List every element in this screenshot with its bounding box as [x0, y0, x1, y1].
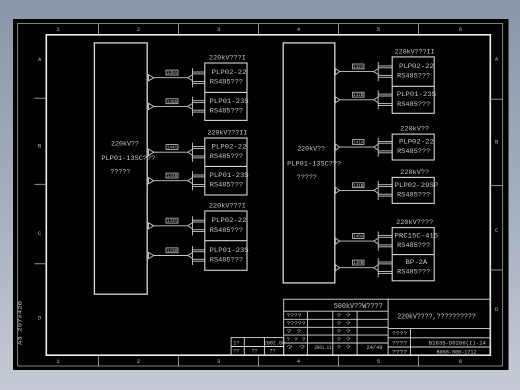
- svg-text:????: ????: [392, 330, 407, 337]
- svg-text:RS485???: RS485???: [210, 227, 243, 234]
- svg-text:220kV??: 220kV??: [400, 126, 429, 133]
- svg-text:220kV??: 220kV??: [297, 146, 325, 154]
- svg-text:5: 5: [377, 27, 380, 33]
- svg-text:PLP01-23S: PLP01-23S: [397, 91, 436, 98]
- svg-text:PLP02-22: PLP02-22: [399, 63, 434, 70]
- svg-text:C: C: [495, 228, 498, 234]
- svg-text:140A: 140A: [353, 235, 363, 240]
- svg-text:6: 6: [459, 27, 462, 33]
- cable W3 (144A): [149, 143, 205, 162]
- zone numbers bottom: [56, 359, 462, 365]
- cable W2 (145B): [149, 97, 205, 116]
- svg-text:????: ????: [392, 339, 407, 346]
- svg-text:? ?: ? ?: [287, 344, 306, 351]
- U1 label text: [101, 140, 155, 176]
- svg-text:?????: ?????: [287, 320, 306, 327]
- svg-text:2002.08: 2002.08: [264, 340, 285, 346]
- svg-text:220kV???II: 220kV???II: [395, 48, 435, 55]
- svg-text:143A: 143A: [167, 219, 177, 224]
- svg-text:A3 297x420: A3 297x420: [18, 301, 24, 345]
- cable W1 (145A): [149, 68, 205, 87]
- svg-text:24/49: 24/49: [367, 345, 383, 351]
- svg-text:1: 1: [56, 27, 59, 33]
- zone letters right: [495, 57, 499, 314]
- svg-text:220kV???II: 220kV???II: [207, 130, 247, 137]
- revision table: [231, 338, 284, 356]
- svg-text:220kV????: 220kV????: [396, 219, 433, 226]
- svg-text:PLP02-22: PLP02-22: [212, 217, 247, 224]
- svg-text:5: 5: [377, 359, 380, 365]
- svg-text:142A: 142A: [353, 65, 363, 70]
- svg-text:? ?: ? ?: [337, 320, 351, 327]
- svg-text:4: 4: [297, 359, 300, 365]
- U2 label text: [287, 146, 341, 183]
- svg-text:RS485???: RS485???: [210, 153, 243, 160]
- svg-text:??: ??: [233, 349, 239, 355]
- cable W7 (142A): [335, 62, 392, 81]
- svg-text:? ?: ? ?: [287, 328, 302, 335]
- zone ticks right edge: [490, 99, 502, 270]
- svg-text:? ?: ? ?: [337, 344, 351, 351]
- svg-text:220kV??: 220kV??: [400, 169, 429, 176]
- svg-text:RS485???: RS485???: [210, 257, 243, 264]
- svg-text:4: 4: [297, 27, 300, 33]
- svg-text:B1635-D0206(I)-14: B1635-D0206(I)-14: [429, 340, 486, 346]
- svg-text:142B: 142B: [353, 93, 363, 98]
- svg-text:D: D: [495, 307, 498, 313]
- svg-text:2: 2: [137, 359, 140, 365]
- revision table text: [233, 340, 285, 354]
- svg-text:1?: 1?: [233, 340, 239, 346]
- svg-text:141B: 141B: [353, 184, 363, 189]
- title block: signature rows left: [287, 312, 383, 351]
- svg-text:RS485???: RS485???: [210, 107, 243, 114]
- svg-text:RS485???: RS485???: [210, 182, 243, 189]
- svg-text:RS485???: RS485???: [397, 73, 430, 80]
- svg-text:1: 1: [56, 359, 59, 365]
- svg-text:144A: 144A: [167, 146, 177, 151]
- svg-text:????: ????: [392, 348, 407, 355]
- svg-text:PLP01-13SC???: PLP01-13SC???: [101, 155, 155, 163]
- svg-text:? ?: ? ?: [337, 328, 351, 335]
- cable W8 (142B): [335, 90, 392, 109]
- zone dividers top edge: [99, 24, 419, 35]
- svg-text:PLP02-29SP: PLP02-29SP: [395, 182, 439, 189]
- cable W10 (141B): [335, 181, 392, 200]
- svg-text:143B: 143B: [167, 249, 177, 254]
- zone letters left: [38, 57, 42, 321]
- svg-text:PLP01-23S: PLP01-23S: [210, 98, 249, 105]
- svg-text:?????: ?????: [297, 174, 317, 182]
- svg-text:500kV??W????: 500kV??W????: [334, 303, 383, 311]
- svg-text:RS485???: RS485???: [397, 269, 430, 276]
- svg-text:RS485???: RS485???: [210, 79, 243, 86]
- protection cubicle U2 (middle 220kV screen): [283, 43, 335, 283]
- svg-text:141A: 141A: [353, 141, 363, 146]
- title block: right info rows: [392, 330, 486, 355]
- svg-text:145A: 145A: [167, 71, 177, 76]
- svg-text:PLP02-22: PLP02-22: [212, 144, 247, 151]
- svg-text:? ?: ? ?: [337, 336, 351, 343]
- svg-text:C: C: [38, 231, 41, 237]
- inner border frame: [46, 35, 490, 355]
- zone ticks left edge: [34, 98, 46, 264]
- svg-text:2001.11: 2001.11: [315, 345, 332, 351]
- svg-text:??: ??: [270, 349, 276, 355]
- svg-text:3: 3: [217, 359, 220, 365]
- svg-text:PLP01-13SC???: PLP01-13SC???: [287, 160, 341, 168]
- svg-text:140B: 140B: [353, 261, 363, 266]
- svg-text:PLP01-23S: PLP01-23S: [210, 172, 249, 179]
- zone dividers bottom edge: [99, 355, 419, 366]
- svg-text:220kV??: 220kV??: [111, 140, 139, 148]
- cable W5 (143A): [149, 216, 205, 235]
- svg-text:220kV????,??????????: 220kV????,??????????: [397, 314, 476, 322]
- svg-text:????: ????: [287, 312, 302, 319]
- svg-text:RS485???: RS485???: [397, 242, 430, 249]
- svg-text:?????: ?????: [110, 168, 130, 176]
- zone numbers top: [56, 27, 462, 33]
- svg-text:3: 3: [217, 27, 220, 33]
- svg-text:2: 2: [137, 27, 140, 33]
- svg-text:D: D: [38, 316, 41, 322]
- svg-text:PLP02-22: PLP02-22: [212, 69, 247, 76]
- svg-text:B066-500-1712: B066-500-1712: [437, 349, 477, 355]
- cable W11 (140A): [335, 232, 392, 251]
- svg-text:RS485???: RS485???: [397, 148, 430, 155]
- svg-text:144B: 144B: [167, 174, 177, 179]
- cable W12 (140B): [335, 258, 392, 277]
- svg-text:6: 6: [459, 359, 462, 365]
- svg-text:? ?: ? ?: [337, 312, 351, 319]
- title block outline: [284, 299, 490, 355]
- svg-text:PRC15C-415: PRC15C-415: [395, 233, 439, 240]
- svg-text:BP-2A: BP-2A: [406, 259, 428, 266]
- cable W9 (141A): [335, 138, 392, 157]
- svg-text:? ? ?: ? ? ?: [287, 336, 306, 343]
- cable W6 (143B): [149, 246, 205, 265]
- cable W4 (144B): [149, 171, 205, 190]
- svg-text:??: ??: [252, 349, 258, 355]
- svg-text:220kV???I: 220kV???I: [209, 203, 246, 210]
- svg-text:220kV???I: 220kV???I: [209, 55, 246, 62]
- svg-text:145B: 145B: [167, 100, 177, 105]
- protection cubicle U1 (left 220kV screen): [94, 43, 147, 294]
- svg-text:RS485???: RS485???: [397, 101, 430, 108]
- svg-text:PLP01-23S: PLP01-23S: [210, 247, 249, 254]
- svg-text:PLP02-22: PLP02-22: [399, 139, 434, 146]
- svg-text:RS485???: RS485???: [397, 191, 430, 198]
